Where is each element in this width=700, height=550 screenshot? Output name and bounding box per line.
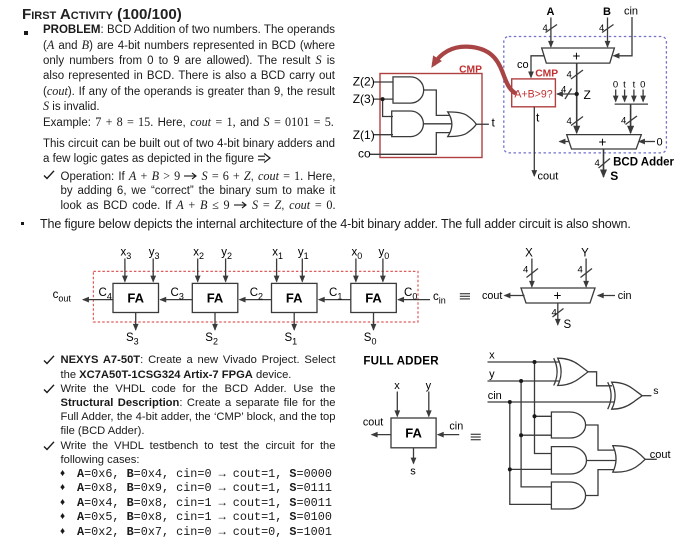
svg-text:Z(1): Z(1) [353, 128, 375, 142]
svg-text:x: x [394, 380, 400, 392]
svg-text:4: 4 [552, 308, 557, 319]
svg-text:cout: cout [538, 171, 559, 183]
svg-text:Z(3): Z(3) [353, 92, 375, 106]
svg-text:FA: FA [365, 291, 382, 306]
svg-text:t: t [623, 80, 626, 91]
svg-text:y: y [489, 369, 495, 381]
svg-text:s: s [653, 385, 658, 397]
svg-text:S2: S2 [205, 332, 218, 347]
svg-text:A+B>9?: A+B>9? [514, 88, 552, 100]
svg-text:y3: y3 [149, 247, 160, 262]
svg-text:FULL ADDER: FULL ADDER [363, 354, 439, 367]
svg-text:cin: cin [488, 390, 502, 402]
svg-text:S0: S0 [364, 332, 377, 347]
svg-text:x3: x3 [121, 247, 132, 262]
svg-text:x: x [489, 350, 495, 362]
svg-text:s: s [410, 466, 416, 478]
svg-text:Z(2): Z(2) [353, 75, 375, 89]
svg-text:4: 4 [561, 84, 566, 95]
svg-text:0: 0 [657, 137, 663, 149]
svg-text:S1: S1 [285, 332, 298, 347]
svg-text:FA: FA [286, 291, 303, 306]
svg-text:B: B [603, 6, 611, 18]
svg-text:cin: cin [433, 291, 446, 306]
svg-text:cin: cin [618, 290, 632, 302]
svg-text:FA: FA [207, 291, 224, 306]
svg-text:X: X [525, 248, 533, 260]
svg-text:cin: cin [449, 421, 463, 433]
svg-text:t: t [492, 116, 496, 130]
svg-text:y2: y2 [221, 247, 232, 262]
svg-text:+: + [599, 134, 607, 149]
svg-text:x2: x2 [193, 247, 204, 262]
svg-text:x1: x1 [272, 247, 283, 262]
svg-text:Y: Y [581, 248, 589, 260]
svg-text:CMP: CMP [459, 64, 482, 75]
svg-text:co: co [517, 59, 529, 71]
svg-text:y0: y0 [379, 247, 390, 262]
svg-text:S: S [564, 319, 572, 331]
svg-text:BCD Adder: BCD Adder [613, 157, 674, 169]
svg-text:4: 4 [578, 265, 583, 276]
svg-text:CMP: CMP [535, 68, 558, 79]
svg-text:cout: cout [650, 449, 671, 461]
svg-text:cout: cout [53, 289, 72, 304]
svg-text:cout: cout [363, 417, 383, 429]
svg-text:4: 4 [567, 116, 572, 127]
svg-text:0: 0 [613, 80, 618, 91]
svg-text:4: 4 [543, 23, 548, 34]
svg-text:A: A [547, 6, 555, 18]
svg-text:t: t [633, 80, 636, 91]
svg-text:x0: x0 [352, 247, 363, 262]
svg-text:y: y [426, 380, 432, 392]
svg-text:+: + [554, 288, 562, 303]
svg-text:4: 4 [567, 69, 572, 80]
svg-text:S: S [610, 169, 618, 183]
svg-text:y1: y1 [298, 247, 309, 262]
svg-text:4: 4 [523, 265, 528, 276]
svg-text:4: 4 [595, 158, 600, 169]
svg-text:0: 0 [640, 80, 645, 91]
svg-text:+: + [573, 49, 581, 64]
svg-text:4: 4 [621, 116, 626, 127]
svg-text:Z: Z [584, 88, 591, 102]
svg-text:t: t [536, 111, 540, 125]
svg-text:co: co [358, 147, 371, 161]
svg-text:4: 4 [599, 23, 604, 34]
svg-text:FA: FA [127, 291, 144, 306]
svg-text:S3: S3 [126, 332, 139, 347]
svg-text:cin: cin [624, 6, 638, 18]
svg-text:cout: cout [482, 290, 502, 302]
svg-text:FA: FA [405, 425, 422, 440]
